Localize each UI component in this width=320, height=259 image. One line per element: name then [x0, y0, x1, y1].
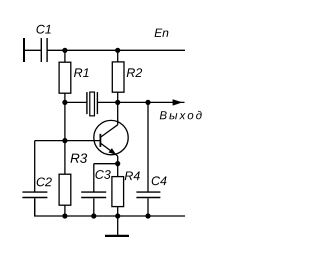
wire R3 to bottom rail: [64, 205, 66, 216]
label En: [155, 29, 169, 37]
wire emitter to node F: [117, 156, 119, 164]
node J (C3/ground rail junction): [91, 213, 96, 218]
wire C3 to bottom rail: [93, 198, 95, 216]
wire C1 to node A: [47, 49, 65, 51]
node K (C4/ground rail junction): [145, 213, 150, 218]
label Выход: [160, 111, 202, 119]
label C4: [152, 176, 167, 185]
wire node F to R4: [117, 164, 119, 177]
label C3: [95, 170, 110, 179]
label R2: [127, 68, 142, 77]
node A (C1/R1/top rail junction): [62, 48, 67, 53]
ground rail (bottom): [35, 198, 185, 216]
node G (R4/ground rail junction): [115, 213, 120, 218]
resistor R1: [59, 62, 71, 93]
resistor R2: [112, 62, 124, 92]
wire rail to R2: [117, 50, 119, 62]
label R1: [74, 68, 89, 77]
resistor R4: [112, 177, 124, 207]
ground: [105, 235, 129, 237]
capacitor C4: [136, 192, 160, 197]
node F (emitter/R4/C3 junction): [115, 161, 120, 166]
label C1: [36, 25, 50, 34]
wire node E to output: [148, 101, 185, 103]
node C (collector/crystal/output junction): [115, 100, 120, 105]
wire emitter link to C3: [94, 163, 118, 165]
wire rail to R1: [64, 50, 66, 62]
wire R4 to bottom rail: [117, 207, 119, 216]
wire R2 to node C: [117, 92, 119, 102]
label C2: [37, 177, 52, 186]
wire terminal to C1: [25, 49, 42, 51]
output arrow: [173, 99, 183, 105]
wire C4 to bottom rail: [147, 198, 149, 216]
label R3: [71, 153, 88, 162]
node I (R3/ground rail junction): [62, 213, 67, 218]
wire C2 branch down: [34, 141, 36, 192]
node B (R1/crystal/base column junction): [62, 100, 67, 105]
wire C4 branch down: [147, 102, 149, 191]
wire crystal to node C: [97, 101, 117, 103]
wire R1 to node B: [64, 93, 66, 102]
transistor Q1: [94, 120, 128, 156]
wire node B to node H: [64, 102, 66, 140]
wire C3 branch down: [93, 164, 95, 192]
crystal ZQ1: [87, 92, 98, 116]
wire ground stem: [117, 216, 119, 236]
wire node C to node E: [118, 101, 148, 103]
node H (base/R3 junction): [62, 138, 67, 143]
node E (output/C4 junction): [145, 100, 150, 105]
capacitor C3: [81, 192, 106, 197]
capacitor C2: [22, 192, 47, 197]
wire node B to crystal: [65, 101, 87, 103]
wire C2 to bottom rail: [34, 198, 36, 216]
capacitor C1: [41, 38, 47, 62]
wire node H to R3: [64, 141, 66, 175]
wire base row: [35, 140, 100, 142]
resistor R3: [59, 174, 71, 205]
label R4: [125, 171, 140, 180]
wire collector: [117, 102, 119, 124]
power rail En (top): [65, 49, 185, 51]
input terminal bar: [23, 38, 25, 62]
node D (R2/top rail junction): [115, 48, 120, 53]
